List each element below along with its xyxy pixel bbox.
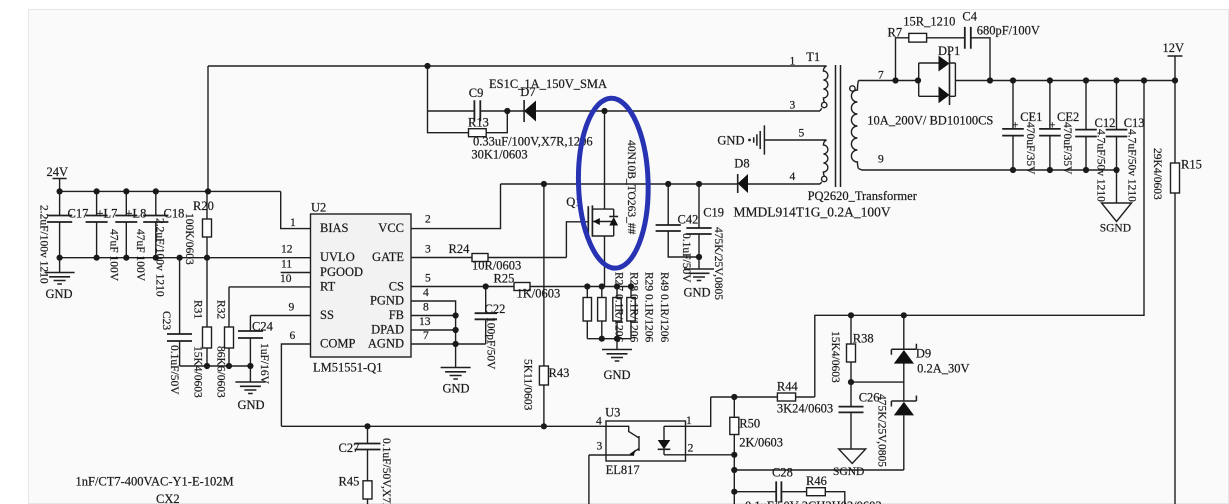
svg-text:UVLO: UVLO	[320, 250, 355, 264]
svg-text:GND: GND	[46, 287, 73, 301]
optocoupler U3 EL817	[596, 406, 694, 478]
ground under C19/C42	[684, 269, 715, 300]
svg-text:D8: D8	[734, 157, 749, 171]
svg-text:BIAS: BIAS	[320, 221, 349, 235]
svg-text:680pF/100V: 680pF/100V	[977, 24, 1040, 38]
diode D8	[734, 157, 749, 194]
svg-text:D9: D9	[916, 347, 931, 361]
svg-text:R15: R15	[1181, 158, 1202, 172]
svg-text:C23: C23	[160, 311, 172, 330]
wire top line	[208, 65, 820, 67]
svg-text:12V: 12V	[1163, 41, 1185, 55]
capacitor C18	[143, 191, 184, 296]
svg-text:GATE: GATE	[372, 250, 404, 264]
svg-text:0.1uF/50V: 0.1uF/50V	[680, 233, 692, 283]
svg-text:C9: C9	[469, 86, 484, 100]
svg-text:R44: R44	[777, 380, 799, 394]
svg-text:+L8: +L8	[126, 207, 147, 221]
svg-text:SS: SS	[320, 308, 334, 322]
ground flag at T1 pin5	[717, 125, 820, 154]
wire secondary return rail	[858, 169, 1116, 171]
svg-text:PQ2620_Transformer: PQ2620_Transformer	[808, 189, 918, 203]
wire T1 pin7 to DP1	[858, 80, 918, 82]
svg-text:R25: R25	[494, 272, 515, 286]
svg-text:6: 6	[290, 330, 296, 342]
svg-text:3: 3	[597, 441, 603, 453]
svg-text:9: 9	[289, 302, 295, 314]
capacitor C27	[339, 426, 393, 504]
svg-text:9: 9	[878, 154, 884, 166]
resistor R13	[428, 111, 593, 162]
svg-text:100pF/50V: 100pF/50V	[485, 317, 497, 370]
power flag 24V	[47, 165, 69, 191]
svg-text:0.1uF/50V,X7R: 0.1uF/50V,X7R	[380, 438, 392, 504]
svg-text:100K/0603: 100K/0603	[183, 213, 195, 265]
wire RT to R32	[229, 286, 311, 288]
svg-text:4: 4	[596, 416, 602, 428]
power symbol SGND 2	[833, 449, 866, 478]
pin numbers U2	[280, 214, 431, 343]
svg-text:4: 4	[423, 287, 429, 299]
transformer T1	[790, 50, 918, 203]
svg-text:R50: R50	[739, 417, 760, 431]
svg-text:R24: R24	[449, 242, 471, 256]
svg-text:R43: R43	[549, 366, 570, 380]
capacitor C42	[656, 184, 699, 283]
wire COMP bottom line	[281, 425, 606, 427]
power symbol SGND	[1100, 170, 1132, 235]
wire vertical to top line	[207, 66, 209, 191]
svg-text:1K/0603: 1K/0603	[517, 287, 561, 301]
resistor R43	[522, 184, 570, 426]
wire 24V bus	[60, 190, 281, 192]
svg-text:R7: R7	[888, 26, 903, 40]
svg-text:0.1R/1206: 0.1R/1206	[643, 294, 655, 342]
wire PGND/FB/DPAD bus	[411, 301, 456, 344]
svg-text:+: +	[1012, 120, 1019, 132]
wire U3 pin2	[664, 454, 734, 456]
svg-text:8: 8	[423, 302, 429, 314]
resistor R32	[215, 287, 234, 398]
wire 12V rail	[955, 80, 1175, 82]
svg-text:PGND: PGND	[370, 294, 404, 308]
svg-text:LM51551-Q1: LM51551-Q1	[313, 361, 382, 375]
svg-text:15K4/0603: 15K4/0603	[192, 346, 204, 398]
power flag 12V	[1163, 41, 1185, 81]
svg-text:R31: R31	[192, 300, 204, 319]
svg-text:3K24/0603: 3K24/0603	[777, 402, 833, 416]
wire C23/R31/R32/C24 bottom	[180, 365, 251, 367]
svg-text:0.1R/1206: 0.1R/1206	[658, 294, 670, 342]
svg-text:470uF/35V: 470uF/35V	[1024, 122, 1036, 175]
svg-text:0.1R/1206: 0.1R/1206	[628, 294, 640, 342]
svg-text:GND: GND	[717, 134, 744, 148]
capacitor L8	[115, 191, 146, 281]
svg-text:EL817: EL817	[606, 463, 640, 477]
svg-text:ES1C_1A_150V_SMA: ES1C_1A_150V_SMA	[489, 77, 607, 91]
svg-text:CS: CS	[389, 280, 404, 294]
resistor R38	[829, 315, 874, 383]
T1 secondary winding	[851, 81, 858, 169]
svg-text:GND: GND	[443, 382, 470, 396]
svg-text:4.7uF/50v 1210: 4.7uF/50v 1210	[1126, 129, 1138, 202]
svg-text:T1: T1	[806, 50, 820, 64]
svg-text:475K/25V,0805: 475K/25V,0805	[712, 227, 724, 300]
svg-text:C24: C24	[252, 320, 274, 334]
svg-text:0.2A_30V: 0.2A_30V	[917, 362, 969, 376]
svg-text:1: 1	[790, 56, 796, 68]
IC U2 LM51551-Q1	[311, 201, 412, 375]
svg-text:2K/0603: 2K/0603	[739, 436, 783, 450]
ground under C24	[235, 366, 265, 412]
resistor R46	[745, 474, 882, 504]
label CX2	[76, 475, 234, 504]
T1 core	[836, 65, 841, 187]
capacitor C9	[469, 86, 484, 121]
capacitor L7	[86, 191, 120, 281]
svg-text:29K4/0603: 29K4/0603	[1151, 148, 1163, 200]
svg-text:10: 10	[280, 273, 292, 285]
svg-text:C42: C42	[678, 213, 699, 227]
svg-text:5: 5	[799, 128, 805, 140]
svg-text:C19: C19	[703, 206, 724, 220]
svg-text:R46: R46	[806, 474, 827, 488]
resistor R44	[711, 380, 833, 416]
svg-text:1nF/CT7-400VAC-Y1-E-102M: 1nF/CT7-400VAC-Y1-E-102M	[76, 475, 234, 489]
svg-text:C17: C17	[68, 207, 89, 221]
svg-text:AGND: AGND	[368, 337, 404, 351]
svg-text:R29: R29	[643, 272, 655, 291]
svg-text:DPAD: DPAD	[371, 323, 404, 337]
svg-text:C18: C18	[164, 207, 185, 221]
svg-text:C4: C4	[962, 10, 977, 24]
wire U3 pin3	[589, 455, 606, 504]
resistor R31	[192, 258, 212, 398]
svg-text:FB: FB	[389, 308, 404, 322]
wire AGND line	[411, 343, 486, 345]
svg-text:12: 12	[281, 244, 293, 256]
ground under bank	[602, 339, 632, 382]
svg-text:C12: C12	[1095, 116, 1116, 130]
svg-text:GND: GND	[684, 286, 711, 300]
capacitor C23	[160, 258, 192, 396]
capacitor C19	[686, 184, 724, 300]
wire snubber drop	[427, 66, 429, 111]
wire PGOOD stub	[281, 272, 311, 274]
svg-text:SGND: SGND	[1100, 223, 1131, 235]
annotation blue ellipse around Q1	[576, 97, 650, 269]
T1 aux winding	[820, 140, 828, 176]
svg-text:5: 5	[425, 273, 431, 285]
transistor Q1	[566, 111, 637, 287]
svg-text:11: 11	[281, 259, 292, 271]
svg-text:DP1: DP1	[938, 44, 960, 58]
resistor R20	[183, 191, 214, 265]
svg-text:0.1uF/50V 3CH3H03/0603: 0.1uF/50V 3CH3H03/0603	[745, 499, 882, 504]
capacitor C13	[1106, 81, 1145, 203]
svg-text:R32: R32	[215, 300, 227, 319]
svg-text:475K/25V,0805: 475K/25V,0805	[876, 394, 888, 467]
svg-text:CX2: CX2	[156, 492, 180, 504]
capacitor C24	[238, 316, 274, 385]
svg-text:40N10B_TO263_##: 40N10B_TO263_##	[625, 140, 637, 235]
svg-text:1uF/16V: 1uF/16V	[258, 343, 270, 385]
svg-text:GND: GND	[238, 398, 265, 412]
svg-text:R20: R20	[193, 199, 214, 213]
capacitor C12	[1075, 81, 1115, 203]
ground under C17	[45, 258, 75, 301]
svg-text:MMDL914T1G_0.2A_100V: MMDL914T1G_0.2A_100V	[734, 205, 891, 220]
svg-text:2: 2	[425, 214, 431, 226]
svg-text:24V: 24V	[47, 165, 69, 179]
svg-text:86K6/0603: 86K6/0603	[215, 346, 227, 398]
svg-text:47uF 100V: 47uF 100V	[108, 229, 120, 282]
wire COMP	[281, 344, 310, 426]
resistor bank R27 R28 R29 R49	[583, 272, 670, 342]
svg-text:3: 3	[790, 100, 796, 112]
svg-text:R49: R49	[658, 272, 670, 291]
resistor R7	[888, 15, 965, 81]
wire input cap bottom / UVLO line	[60, 257, 311, 259]
wire node line y184	[501, 183, 821, 185]
capacitor C26	[839, 382, 888, 467]
svg-text:1: 1	[290, 217, 296, 229]
svg-text:R13: R13	[468, 115, 489, 129]
svg-text:5K11/0603: 5K11/0603	[522, 359, 534, 411]
T1 primary winding	[820, 66, 828, 102]
capacitor CE1	[1002, 81, 1042, 176]
svg-text:C22: C22	[485, 302, 506, 316]
svg-text:15R_1210: 15R_1210	[903, 15, 955, 29]
svg-text:+: +	[1049, 120, 1056, 132]
svg-text:SGND: SGND	[833, 466, 864, 478]
svg-text:GND: GND	[604, 368, 631, 382]
diode D9	[891, 315, 969, 470]
svg-text:10R/0603: 10R/0603	[472, 259, 521, 273]
svg-text:7: 7	[878, 70, 884, 82]
svg-text:U3: U3	[605, 406, 620, 420]
dual diode DP1	[867, 44, 993, 128]
svg-text:47uF 100V: 47uF 100V	[134, 229, 146, 282]
svg-text:R38: R38	[853, 332, 874, 346]
capacitor C22	[475, 287, 506, 371]
ground under AGND	[441, 344, 471, 396]
resistor R15	[1151, 81, 1202, 504]
wire 12V to feedback	[815, 81, 1144, 398]
svg-text:+L7: +L7	[97, 207, 118, 221]
capacitor C17	[38, 191, 89, 283]
svg-text:30K1/0603: 30K1/0603	[471, 148, 527, 162]
wire snubber line to T1 pin3	[428, 110, 821, 112]
svg-text:VCC: VCC	[378, 221, 404, 235]
svg-text:C28: C28	[772, 466, 793, 480]
svg-text:3: 3	[425, 244, 431, 256]
svg-text:1: 1	[686, 415, 692, 427]
capacitor C28	[734, 466, 806, 503]
svg-text:7: 7	[423, 330, 429, 342]
resistor R45	[339, 475, 373, 504]
wire bus-to-BIAS	[281, 191, 311, 228]
svg-text:COMP: COMP	[320, 337, 355, 351]
capacitor CE2	[1039, 81, 1079, 176]
wire SS line	[250, 315, 310, 317]
svg-text:0.33uF/100V,X7R,1206: 0.33uF/100V,X7R,1206	[473, 135, 593, 149]
wire VCC to drain line	[411, 184, 501, 229]
resistor R24	[411, 242, 566, 273]
svg-text:15K4/0603: 15K4/0603	[829, 331, 841, 383]
svg-text:RT: RT	[320, 280, 336, 294]
svg-text:4.7uF/50v 1210: 4.7uF/50v 1210	[1095, 129, 1107, 202]
resistor R25	[411, 272, 583, 301]
svg-text:0.1R/1206: 0.1R/1206	[612, 294, 624, 342]
svg-text:PGOOD: PGOOD	[320, 265, 363, 279]
svg-text:C13: C13	[1124, 116, 1145, 130]
resistor R50	[730, 397, 783, 504]
wire U3 pin1 to R44	[686, 397, 711, 426]
svg-text:0.1uF/50V: 0.1uF/50V	[168, 345, 180, 395]
svg-text:R45: R45	[339, 475, 360, 489]
svg-text:U2: U2	[311, 201, 326, 215]
svg-text:470uF/35V: 470uF/35V	[1061, 122, 1073, 175]
svg-text:C27: C27	[339, 441, 360, 455]
wire gate	[566, 222, 588, 258]
svg-text:10A_200V/ BD10100CS: 10A_200V/ BD10100CS	[867, 114, 993, 128]
wire SGND return	[734, 469, 904, 471]
diode D7	[520, 85, 536, 122]
wire R38 bottom to D9 mid	[851, 381, 904, 383]
svg-text:13: 13	[419, 316, 431, 328]
capacitor C4	[962, 10, 1040, 81]
svg-text:4: 4	[790, 171, 796, 183]
svg-text:2: 2	[688, 443, 694, 455]
